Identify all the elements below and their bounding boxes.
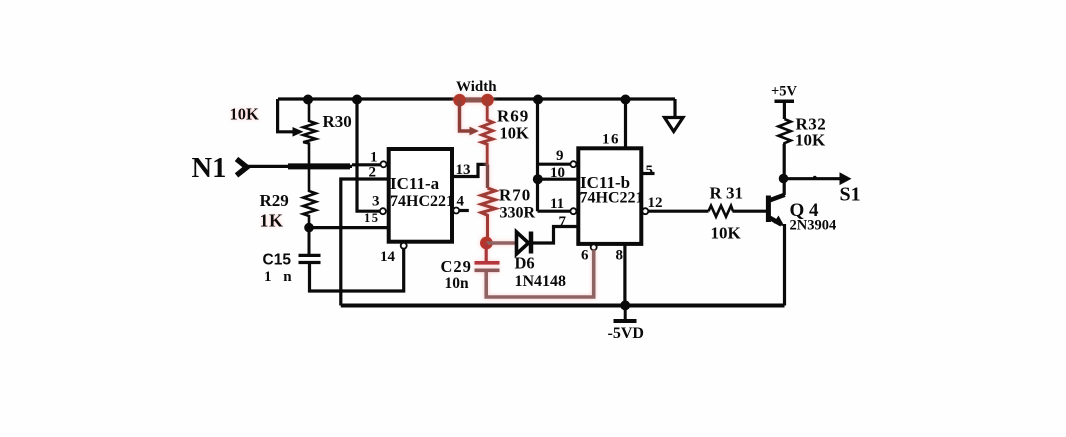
wire R32 to collector node bbox=[783, 144, 786, 195]
svg-text:IC11-a: IC11-a bbox=[390, 174, 440, 193]
svg-text:R70: R70 bbox=[499, 186, 531, 205]
junction dot rail/IC11-b inputs bbox=[533, 95, 543, 105]
wire bottom bus bbox=[341, 304, 785, 308]
capacitor C15 bbox=[299, 228, 321, 263]
resistor R31 bbox=[709, 206, 734, 217]
svg-text:15: 15 bbox=[364, 211, 380, 225]
wire R30 wiper loop bbox=[278, 99, 294, 132]
wire R69 to R70 (brown) bbox=[486, 164, 489, 188]
svg-text:1K: 1K bbox=[260, 211, 284, 231]
potentiometer R69 (red) bbox=[482, 100, 493, 164]
svg-text:4: 4 bbox=[457, 194, 465, 210]
svg-text:5: 5 bbox=[646, 163, 654, 179]
wire red rail segment between dots bbox=[460, 98, 488, 103]
svg-text:N1: N1 bbox=[192, 153, 227, 184]
D6 cathode bar bbox=[529, 232, 534, 254]
svg-text:D6: D6 bbox=[515, 254, 535, 273]
svg-text:10K: 10K bbox=[230, 105, 260, 124]
resistor R70 (red) bbox=[481, 188, 495, 243]
svg-text:74HC221: 74HC221 bbox=[390, 193, 454, 210]
wire R69 wiper loop (red) bbox=[460, 100, 471, 131]
wire pin3 from top rail bbox=[357, 99, 380, 211]
svg-text:+5V: +5V bbox=[771, 84, 798, 100]
wire D6 anode (brown) bbox=[487, 241, 517, 244]
resistor R29 bbox=[303, 166, 316, 227]
wire C29 bottom to pin6 (brown) bbox=[486, 250, 594, 297]
S1 arrowhead bbox=[840, 172, 852, 185]
pink halo group: red/brown nets bbox=[453, 94, 593, 297]
svg-text:-5VD: -5VD bbox=[608, 325, 644, 342]
wire pin10 bbox=[538, 178, 579, 181]
thick overlay on N1 wire bbox=[288, 163, 350, 169]
svg-text:11: 11 bbox=[550, 196, 564, 212]
svg-text:9: 9 bbox=[556, 148, 564, 164]
input chevron N1 bbox=[237, 159, 247, 175]
svg-text:R30: R30 bbox=[323, 112, 352, 131]
svg-text:S1: S1 bbox=[840, 184, 861, 206]
pin bubble 6 bbox=[591, 244, 597, 250]
node Width red dot B bbox=[481, 94, 494, 107]
svg-text:330R: 330R bbox=[500, 205, 536, 222]
R30 value 10K (red) bbox=[230, 105, 260, 124]
svg-text:10K: 10K bbox=[795, 131, 826, 150]
wire pin2 of IC11-a bbox=[341, 179, 389, 306]
wire pin12 to R31 bbox=[648, 210, 708, 213]
svg-text:1: 1 bbox=[370, 150, 378, 166]
svg-text:10K: 10K bbox=[711, 224, 742, 243]
node Width red dot A bbox=[453, 94, 466, 107]
R69 wiper arrowhead bbox=[470, 127, 480, 136]
wire pin13 to R69/R70 junction bbox=[452, 164, 487, 176]
wire N1 to pin1 bbox=[352, 163, 381, 166]
R30 wiper arrowhead bbox=[293, 127, 304, 137]
svg-text:13: 13 bbox=[456, 162, 471, 178]
svg-text:2: 2 bbox=[369, 165, 377, 181]
resistor R32 bbox=[778, 119, 790, 144]
svg-text:74HC221: 74HC221 bbox=[580, 190, 644, 207]
wire D6 cathode to pin7 bbox=[532, 227, 579, 244]
svg-text:8: 8 bbox=[616, 248, 624, 264]
wire +5V to R32 bbox=[783, 101, 786, 119]
IC11-a box U-a bbox=[389, 149, 452, 242]
svg-text:16: 16 bbox=[602, 132, 620, 148]
Q4 collector diagonal bbox=[768, 195, 784, 201]
ground symbol bbox=[665, 118, 684, 132]
pin bubble 3 bbox=[380, 208, 386, 214]
wire rail to IC11-b pins 9,10,11 bbox=[536, 99, 539, 211]
junction dot rail/pin3 bbox=[352, 95, 362, 105]
wire ground branch bbox=[673, 99, 676, 118]
svg-text:Width: Width bbox=[456, 79, 497, 95]
-5VD supply symbol bbox=[614, 305, 637, 321]
svg-text:3: 3 bbox=[372, 194, 380, 210]
junction dot R29/C15 bbox=[304, 223, 314, 233]
junction dot R70/C29/D6 (red) bbox=[480, 237, 493, 250]
S1 wire tick bbox=[813, 176, 817, 180]
pin bubble 9 bbox=[570, 161, 576, 167]
wire collector node to S1 arrow bbox=[784, 177, 840, 180]
pin bubble 12 bbox=[642, 208, 648, 214]
svg-text:R 31: R 31 bbox=[710, 184, 744, 203]
junction dot rail/R30 bbox=[303, 95, 313, 105]
wire Q4 emitter to bus bbox=[783, 224, 786, 306]
svg-text:7: 7 bbox=[559, 214, 567, 230]
svg-text:10n: 10n bbox=[445, 275, 470, 292]
wire pin9 bbox=[538, 163, 571, 166]
svg-text:10: 10 bbox=[550, 165, 565, 181]
wire C15 bottom to pin14 bbox=[310, 249, 404, 291]
svg-text:1N4148: 1N4148 bbox=[515, 273, 567, 290]
pin bubble 1 bbox=[381, 161, 387, 167]
wire N1 input line bbox=[247, 165, 352, 168]
svg-text:C29: C29 bbox=[441, 257, 472, 276]
svg-text:C15: C15 bbox=[263, 252, 292, 269]
junction dot pin10 bbox=[533, 174, 543, 184]
wire pin8 to bus bbox=[623, 244, 626, 306]
junction dot bus/-5VD bbox=[620, 300, 630, 310]
pin bubble 4 bbox=[453, 208, 459, 214]
svg-text:12: 12 bbox=[648, 195, 663, 211]
R29 value 1K (red) bbox=[260, 211, 284, 231]
svg-text:6: 6 bbox=[581, 248, 589, 264]
transistor Q2 base bar bbox=[766, 196, 771, 223]
Q4 emitter diagonal bbox=[768, 217, 781, 225]
pin bubble 11 bbox=[570, 208, 576, 214]
IC11-b box U-b bbox=[578, 148, 641, 244]
junction dot collector node bbox=[779, 174, 789, 184]
pin bubble 14 bbox=[401, 243, 407, 249]
svg-text:2N3904: 2N3904 bbox=[790, 218, 837, 234]
capacitor C29 plates (red) bbox=[475, 261, 500, 265]
wire R31 to Q4 base bbox=[733, 210, 767, 213]
wire pin11 bbox=[538, 210, 571, 213]
wire top rail bbox=[278, 97, 675, 100]
svg-text:10K: 10K bbox=[500, 124, 530, 143]
svg-text:14: 14 bbox=[380, 249, 396, 265]
svg-text:R29: R29 bbox=[260, 191, 289, 210]
wire pin16 from rail bbox=[624, 99, 627, 148]
resistor R30 bbox=[303, 99, 316, 166]
Q4 emitter arrowhead bbox=[774, 216, 785, 227]
wire pin15 from R29/C15 node bbox=[309, 226, 389, 229]
junction dot rail/pin16 bbox=[621, 95, 631, 105]
wire pin4 stub bbox=[459, 209, 468, 212]
diode D6 bbox=[517, 232, 529, 254]
wire C29 top lead bbox=[485, 243, 488, 261]
+5V supply bar bbox=[775, 99, 795, 103]
svg-text:1 n: 1 n bbox=[264, 269, 296, 285]
wire pin5 stub bbox=[641, 172, 654, 175]
